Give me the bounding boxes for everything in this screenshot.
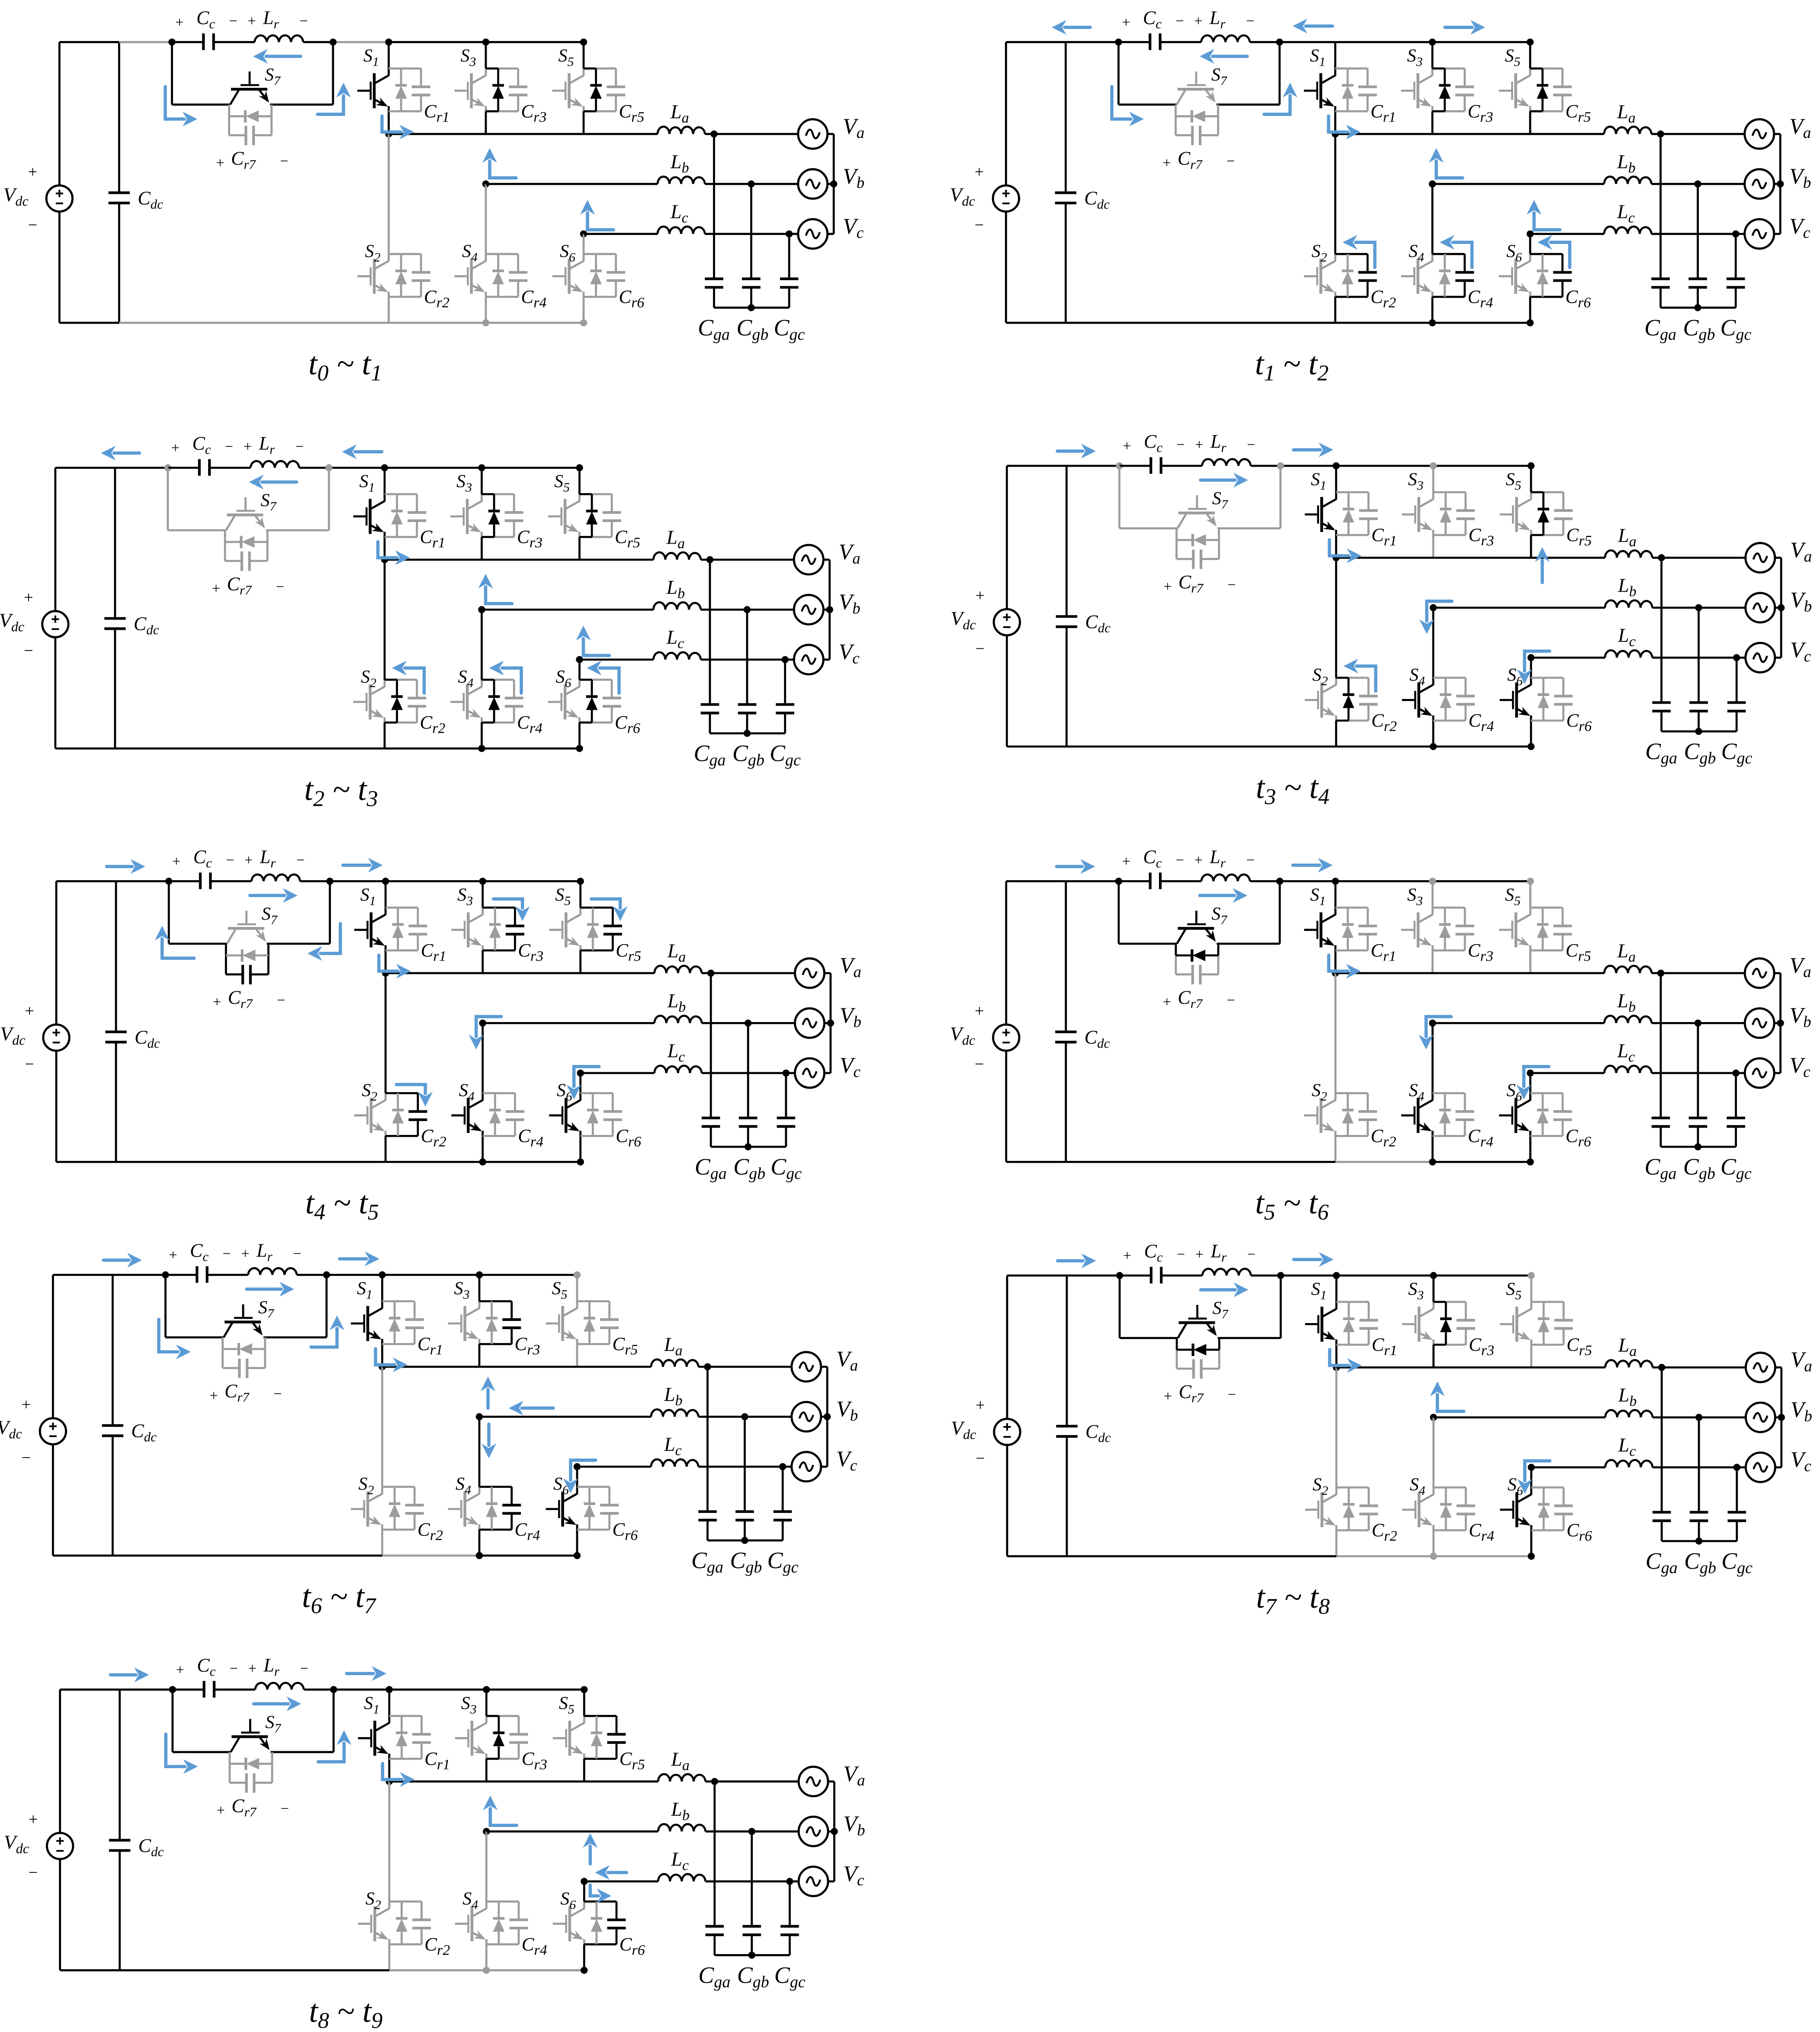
junction: bottom of leg3 (ckt 3) [576, 745, 583, 752]
label Cga (ckt 5) [695, 1154, 727, 1183]
node phase a (ckt 5) [382, 970, 389, 977]
wire: Cr7 bracket (ckt 3) [225, 530, 267, 561]
capacitor Cr6 snubber of S6 (ckt 9) [607, 1920, 626, 1928]
junction: top of leg 5 (ckt 1) [580, 38, 587, 45]
wire: Cr7 bracket (ckt 4) [1177, 529, 1219, 559]
wire: phase a line (ckt 5) [385, 972, 795, 974]
wire: top rail Cdc to node A (ckt 4) [1066, 465, 1119, 467]
svg-text:−: − [1228, 1387, 1236, 1403]
label Lb (ckt 6) [1617, 990, 1636, 1015]
capacitor Cr7 (ckt 8) [1194, 1359, 1201, 1379]
label Va (ckt 1) [843, 114, 864, 142]
label Cr5 (ckt 1) [619, 101, 645, 125]
svg-text:+: + [1163, 579, 1172, 595]
current arrow top rail before S1 (ckt 7) [340, 1252, 379, 1266]
wire: top rail leg2 to leg3 (ckt 2) [1432, 41, 1530, 43]
inductor Lc (ckt 1) [658, 227, 705, 234]
inductor La (ckt 7) [651, 1359, 698, 1367]
capacitor Cr4 snubber of S4 (ckt 9) [510, 1920, 528, 1928]
current arrow phase b up (ckt 9) [483, 1795, 517, 1825]
capacitor Cr3 snubber of S3 (ckt 8) [1457, 1320, 1475, 1328]
junction: Cgb bottom (ckt 3) [744, 730, 751, 737]
label La (ckt 9) [671, 1748, 690, 1773]
capacitor Cgb (ckt 4) [1689, 608, 1708, 731]
junction: phase a to ground cap (ckt 8) [1658, 1364, 1665, 1371]
label Cr2 (ckt 6) [1371, 1126, 1396, 1150]
label Cga (ckt 2) [1644, 314, 1676, 343]
diode D2 antiparallel of S2 (ckt 8) [1343, 1487, 1355, 1530]
voltage source Va (ckt 6) [1745, 958, 1774, 988]
current arrow phase c into S6 (ckt 6) [1516, 1067, 1549, 1099]
wire: bottom rail Cdc to leg1 (ckt 9) [120, 1969, 389, 1971]
svg-text:−: − [229, 13, 237, 29]
label Lb (ckt 3) [666, 576, 685, 602]
label Lr with polarity (ckt 2) [1194, 7, 1254, 31]
transistor S6 (ckt 4) [1500, 678, 1531, 721]
wire: snubber bracket of S5 (ckt 7) [577, 1301, 610, 1344]
wire: snubber bracket of S3 (ckt 8) [1434, 1302, 1466, 1345]
label Cdc (ckt 2) [1084, 187, 1110, 212]
node A (ckt 8) [1116, 1272, 1123, 1279]
label S1 (ckt 5) [360, 885, 376, 908]
junction: top of leg 5 (ckt 7) [574, 1271, 581, 1278]
current arrow out of S7 loop right (ckt 1) [318, 83, 351, 114]
node B (ckt 2) [1276, 38, 1283, 45]
current arrow phase c up (ckt 2) [1527, 200, 1560, 230]
label Cr1 (ckt 1) [424, 101, 449, 125]
current arrow Lr current (ckt 2) [1200, 49, 1247, 64]
voltage source Va (ckt 7) [792, 1352, 821, 1381]
label Cdc (ckt 7) [131, 1420, 157, 1445]
capacitor Cr2 snubber of S2 (ckt 8) [1359, 1506, 1378, 1514]
capacitor Cr5 snubber of S5 (ckt 3) [603, 513, 621, 521]
transistor S6 (ckt 8) [1500, 1487, 1531, 1530]
diode D7 antiparallel of S7 (ckt 9) [230, 1758, 272, 1770]
svg-text:−: − [276, 579, 284, 595]
diode D5 antiparallel of S5 (ckt 8) [1538, 1302, 1550, 1345]
junction: phase c to ground cap (ckt 8) [1733, 1464, 1740, 1471]
diode D3 antiparallel of S3 (ckt 4) [1440, 492, 1451, 535]
wire: snubber bracket of S5 (ckt 9) [584, 1716, 616, 1759]
wire: leg at S4 (ckt 9) [485, 1831, 488, 1970]
wire: snubber bracket of S2 (ckt 6) [1335, 1093, 1368, 1136]
wire: left rail (ckt 6) [1006, 881, 1066, 1162]
label Vdc with polarity (ckt 3) [0, 589, 33, 660]
diode D2 antiparallel of S2 (ckt 4) [1343, 678, 1355, 721]
junction: top of leg 1 (ckt 9) [386, 1686, 393, 1693]
capacitor Cr2 snubber of S2 (ckt 6) [1358, 1112, 1377, 1120]
label S1 (ckt 9) [364, 1693, 379, 1716]
label S1 (ckt 7) [357, 1279, 372, 1302]
label Lb (ckt 2) [1617, 151, 1636, 176]
inductor Lb (ckt 3) [654, 603, 701, 610]
wire: snubber bracket of S6 (ckt 3) [580, 680, 612, 723]
svg-text:−: − [1227, 992, 1235, 1008]
current arrow D4 up (ckt 3) [489, 661, 522, 693]
wire: phase a line (ckt 2) [1335, 133, 1745, 135]
label S6 (ckt 8) [1508, 1475, 1523, 1498]
diode D4 antiparallel of S4 (ckt 7) [486, 1487, 498, 1530]
node phase c (ckt 6) [1527, 1070, 1534, 1077]
current arrow out of S7 loop right (ckt 2) [1264, 83, 1297, 114]
inductor La (ckt 8) [1605, 1360, 1653, 1368]
diode D4 antiparallel of S4 (ckt 4) [1440, 678, 1451, 721]
wire: S7 loop right side (ckt 7) [263, 1275, 327, 1338]
label Cgb (ckt 9) [737, 1962, 769, 1991]
junction: Cgb bottom (ckt 2) [1694, 304, 1701, 311]
wire: top rail node B to leg1 (ckt 6) [1280, 880, 1335, 882]
voltage source Vb (ckt 4) [1746, 593, 1775, 622]
diode D2 antiparallel of S2 (ckt 5) [392, 1093, 404, 1136]
diode D2 antiparallel of S2 (ckt 7) [389, 1487, 401, 1530]
label S2 (ckt 2) [1312, 241, 1327, 264]
wire: snubber bracket of S2 (ckt 9) [389, 1901, 422, 1944]
wire: snubber bracket of S3 (ckt 7) [479, 1301, 512, 1344]
label Cr2 (ckt 3) [420, 713, 446, 737]
wire: top rail Cdc to node A (ckt 7) [112, 1274, 165, 1276]
inductor La (ckt 3) [654, 552, 701, 560]
junction: phase b to ground cap (ckt 5) [745, 1019, 751, 1026]
svg-text:+: + [244, 439, 252, 455]
wire: top rail leg1 to leg2 (ckt 5) [385, 880, 483, 882]
label Vc (ckt 1) [843, 214, 864, 242]
transistor S6 (ckt 2) [1499, 254, 1530, 297]
transistor S3 (ckt 1) [455, 68, 486, 111]
label Cc with polarity (ckt 6) [1122, 846, 1184, 870]
label Cr7 with polarity (ckt 8) [1164, 1381, 1236, 1405]
current arrow phase a out of S1 (ckt 9) [382, 1763, 414, 1787]
transistor S6 (ckt 3) [548, 680, 579, 723]
wire: snubber bracket of S1 (ckt 4) [1336, 492, 1369, 535]
wire: leg at S3 (ckt 2) [1432, 42, 1434, 134]
label Cr3 (ckt 3) [517, 527, 542, 551]
transistor S2 (ckt 8) [1305, 1487, 1336, 1530]
label Vc (ckt 6) [1789, 1053, 1810, 1081]
label Cr2 (ckt 5) [421, 1126, 446, 1150]
wire: bottom rail Cdc to leg1 (ckt 6) [1066, 1161, 1335, 1163]
label Cr6 (ckt 6) [1566, 1126, 1591, 1150]
svg-text:−: − [1226, 153, 1235, 169]
transistor S4 (ckt 2) [1401, 254, 1432, 297]
current arrow Lr current (ckt 9) [254, 1696, 301, 1711]
wire: top rail Cdc to node A (ckt 8) [1067, 1275, 1120, 1277]
svg-text:−: − [29, 1863, 38, 1881]
label S2 (ckt 9) [366, 1889, 381, 1912]
label La (ckt 3) [666, 526, 685, 552]
current arrow phase a out of S1 (ckt 7) [376, 1349, 408, 1372]
label S4 (ckt 4) [1409, 665, 1425, 688]
wire: top rail leg2 to leg3 (ckt 4) [1433, 465, 1531, 467]
wire: snubber bracket of S4 (ckt 4) [1433, 678, 1466, 721]
voltage source Vc (ckt 9) [799, 1867, 828, 1896]
node phase a (ckt 9) [386, 1778, 393, 1785]
svg-text:+: + [216, 155, 224, 171]
wire: top rail node B to leg1 (ckt 4) [1281, 465, 1336, 467]
junction: top of leg 1 (ckt 3) [381, 464, 388, 471]
label La (ckt 4) [1618, 524, 1637, 550]
capacitor Cc (ckt 4) [1120, 457, 1161, 474]
node phase b (ckt 6) [1429, 1019, 1436, 1026]
label Cr3 (ckt 9) [522, 1749, 547, 1772]
wire: S7 loop right side (ckt 3) [266, 468, 329, 531]
node B (ckt 9) [330, 1686, 337, 1693]
junction: top of leg 3 (ckt 2) [1429, 38, 1436, 45]
label S6 (ckt 2) [1506, 241, 1522, 264]
wire: leg at S2 (ckt 1) [388, 134, 390, 323]
label Cr5 (ckt 8) [1566, 1335, 1592, 1359]
wire: phase b line (ckt 3) [482, 609, 794, 611]
label S6 (ckt 7) [553, 1474, 569, 1497]
diode D6 antiparallel of S6 (ckt 2) [1537, 254, 1548, 297]
transistor S7 auxiliary switch (ckt 8) [1178, 1305, 1217, 1338]
wire: bottom rail Cdc to leg1 (ckt 3) [115, 747, 385, 750]
wire: snubber bracket of S6 (ckt 5) [581, 1093, 613, 1136]
current arrow top rail right S3-S5 (ckt 2) [1445, 20, 1485, 35]
wire: bottom rail Cdc to leg1 (ckt 4) [1066, 746, 1336, 748]
label Cgb (ckt 2) [1683, 314, 1715, 343]
wire: left rail (ckt 9) [60, 1689, 120, 1970]
label S4 (ckt 8) [1410, 1475, 1425, 1498]
svg-text:+: + [25, 1002, 34, 1020]
svg-text:−: − [28, 216, 37, 234]
wire: snubber bracket of S2 (ckt 3) [385, 680, 417, 723]
wire: snubber bracket of S1 (ckt 1) [389, 68, 421, 111]
voltage source Va (ckt 8) [1746, 1353, 1775, 1382]
wire: bottom rail leg2 to leg3 (ckt 4) [1433, 746, 1531, 748]
capacitor Cr7 (ckt 7) [239, 1359, 247, 1378]
label Cr2 (ckt 4) [1371, 711, 1397, 734]
capacitor Cr1 snubber of S1 (ckt 5) [408, 926, 427, 934]
wire: top rail leg1 to leg2 (ckt 4) [1336, 465, 1434, 467]
transistor S4 (ckt 4) [1402, 678, 1433, 721]
wire: leg at S5 (ckt 1) [583, 42, 585, 134]
label S7 (ckt 9) [265, 1712, 282, 1735]
junction: bottom of leg2 (ckt 2) [1429, 319, 1436, 326]
junction: phase a to ground cap (ckt 4) [1658, 554, 1665, 561]
capacitor Cga (ckt 2) [1651, 134, 1670, 308]
wire: top rail Cdc to node A (ckt 9) [120, 1689, 173, 1691]
wire: snubber bracket of S5 (ckt 5) [581, 907, 613, 950]
node A (ckt 6) [1115, 878, 1122, 885]
wire: leg at S1 (ckt 3) [384, 468, 386, 560]
inductor Lb (ckt 1) [658, 176, 705, 184]
voltage source Vb (ckt 1) [798, 169, 828, 199]
wire: phase c line (ckt 5) [581, 1072, 795, 1074]
capacitor Cr2 snubber of S2 (ckt 4) [1359, 696, 1378, 704]
capacitor Cr5 snubber of S5 (ckt 6) [1554, 926, 1572, 934]
diode D1 antiparallel of S1 (ckt 9) [396, 1716, 408, 1759]
inductor Lr (ckt 4) [1161, 459, 1281, 466]
node phase b (ckt 9) [483, 1828, 490, 1835]
diode D7 antiparallel of S7 (ckt 7) [223, 1343, 265, 1356]
current arrow phase b up (ckt 8) [1430, 1381, 1464, 1411]
label Vc (ckt 2) [1789, 214, 1810, 242]
transistor S5 (ckt 7) [546, 1301, 577, 1344]
svg-text:−: − [280, 153, 288, 169]
junction: top of leg 5 (ckt 2) [1527, 38, 1534, 45]
svg-text:−: − [225, 439, 233, 455]
voltage source Vb (ckt 5) [795, 1008, 825, 1038]
voltage source Vc (ckt 6) [1745, 1058, 1774, 1088]
current arrow Lr current (ckt 7) [247, 1282, 294, 1297]
wire: snubber bracket of S5 (ckt 6) [1530, 907, 1563, 950]
label S1 (ckt 6) [1310, 885, 1326, 908]
capacitor Cr4 snubber of S4 (ckt 3) [505, 698, 523, 706]
current arrow phase b up into Cr3 (ckt 7) [481, 1377, 495, 1408]
junction: top of leg 1 (ckt 5) [382, 878, 389, 885]
label Vc (ckt 5) [840, 1053, 861, 1081]
wire: snubber bracket of S1 (ckt 9) [389, 1716, 422, 1759]
wire: leg at S6 (ckt 2) [1529, 234, 1531, 323]
node phase b (ckt 8) [1430, 1414, 1437, 1421]
label Cr2 (ckt 1) [424, 287, 449, 311]
current arrow phase b down (ckt 5) [469, 1016, 501, 1049]
transistor S6 (ckt 5) [549, 1093, 580, 1136]
label S3 (ckt 4) [1408, 470, 1424, 493]
current arrow into Cr5 (ckt 5) [591, 899, 628, 921]
svg-text:−: − [230, 1660, 238, 1676]
node phase c (ckt 9) [581, 1878, 587, 1885]
junction: Vb right bus (ckt 7) [824, 1413, 831, 1420]
label Lc (ckt 8) [1618, 1434, 1636, 1459]
capacitor Cc (ckt 5) [169, 872, 210, 889]
capacitor Cr4 snubber of S4 (ckt 5) [506, 1112, 524, 1120]
wire: leg at S1 (ckt 8) [1335, 1276, 1338, 1368]
label Cr7 with polarity (ckt 7) [209, 1381, 282, 1405]
svg-text:+: + [247, 13, 256, 29]
transistor S5 (ckt 9) [553, 1716, 584, 1759]
wire: leg at S6 (ckt 5) [579, 1073, 581, 1162]
wire: leg at S4 (ckt 3) [481, 610, 483, 749]
label La (ckt 1) [670, 100, 689, 126]
current arrow into S7 loop left (ckt 9) [166, 1734, 198, 1774]
label S5 (ckt 2) [1505, 46, 1521, 69]
label S2 (ckt 5) [362, 1080, 377, 1103]
wire: leg at S2 (ckt 8) [1335, 1368, 1338, 1557]
voltage source Va (ckt 3) [794, 545, 823, 574]
capacitor Cr6 snubber of S6 (ckt 2) [1553, 272, 1572, 281]
label Cgb (ckt 7) [730, 1548, 762, 1577]
current arrow S7 loop left up (ckt 5) [155, 926, 194, 958]
capacitor Cr5 snubber of S5 (ckt 1) [607, 87, 625, 95]
label Cc with polarity (ckt 9) [176, 1654, 238, 1679]
capacitor Cgc (ckt 7) [774, 1467, 792, 1541]
wire: phase a line (ckt 1) [389, 133, 798, 135]
label Vc (ckt 7) [836, 1447, 857, 1474]
label Vdc with polarity (ckt 7) [0, 1396, 31, 1467]
current arrow top rail before S1 (ckt 6) [1293, 858, 1332, 872]
label interval t8 to t9 (ckt 9) [309, 1994, 382, 2032]
diode D6 antiparallel of S6 (ckt 1) [590, 254, 602, 297]
current arrow phase a out of S1 (ckt 3) [378, 542, 410, 565]
capacitor Cdc (ckt 9) [109, 1689, 130, 1970]
wire: Cr7 bracket (ckt 1) [229, 105, 272, 135]
voltage source Vdc (ckt 3) [42, 611, 68, 637]
label Cga (ckt 3) [694, 740, 726, 769]
label Cc with polarity (ckt 8) [1123, 1240, 1185, 1265]
wire: snubber bracket of S4 (ckt 6) [1432, 1093, 1465, 1136]
label S6 (ckt 3) [556, 667, 571, 690]
wire: S7 loop right side (ckt 4) [1217, 466, 1281, 529]
wire: S7 loop left side (ckt 7) [166, 1275, 224, 1338]
wire: leg at S1 (ckt 6) [1334, 881, 1336, 973]
label Cr5 (ckt 6) [1566, 940, 1591, 964]
current arrow top rail before S1 (ckt 9) [347, 1666, 386, 1681]
junction: phase a to ground cap (ckt 7) [704, 1363, 711, 1370]
capacitor Cdc (ckt 8) [1056, 1276, 1077, 1556]
current arrow top rail left before S1 (ckt 2) [1293, 19, 1332, 33]
label S2 (ckt 4) [1313, 665, 1328, 688]
label Cga (ckt 6) [1644, 1154, 1676, 1183]
diode D1 antiparallel of S1 (ckt 7) [389, 1301, 401, 1344]
wire: snubber bracket of S6 (ckt 1) [584, 254, 616, 297]
label S3 (ckt 6) [1407, 885, 1423, 908]
label Lb (ckt 9) [671, 1798, 690, 1824]
label Cc with polarity (ckt 2) [1122, 7, 1184, 31]
transistor S4 (ckt 5) [451, 1093, 482, 1136]
transistor S3 (ckt 6) [1401, 907, 1432, 950]
wire: snubber bracket of S2 (ckt 8) [1336, 1487, 1369, 1530]
diode D4 antiparallel of S4 (ckt 5) [489, 1093, 501, 1136]
wire: leg at S5 (ckt 3) [578, 468, 581, 560]
inductor Lr (ckt 2) [1160, 35, 1280, 42]
wire: bottom rail leg2 to leg3 (ckt 1) [486, 322, 584, 324]
wire: bottom rail leg2 to leg3 (ckt 5) [483, 1161, 581, 1163]
node A (ckt 2) [1115, 38, 1122, 45]
wire: ground cap bus (ckt 4) [1662, 731, 1737, 733]
junction: phase b to ground cap (ckt 7) [741, 1413, 748, 1420]
junction: phase a to ground cap (ckt 6) [1657, 970, 1664, 977]
current arrow S7 loop right down (ckt 5) [308, 923, 340, 961]
capacitor Cgc (ckt 5) [777, 1073, 796, 1147]
wire: leg at S3 (ckt 3) [481, 468, 483, 560]
capacitor Cr5 snubber of S5 (ckt 7) [600, 1320, 619, 1328]
wire: top rail leg2 to leg3 (ckt 5) [483, 880, 581, 882]
wire: bottom rail leg1 to leg2 (ckt 9) [389, 1969, 487, 1971]
current arrow phase b down (ckt 4) [1419, 601, 1452, 634]
wire: snubber bracket of S2 (ckt 5) [385, 1093, 418, 1136]
junction: top of leg 1 (ckt 1) [385, 38, 392, 45]
wire: left rail (ckt 7) [53, 1275, 112, 1556]
current arrow Lr current (ckt 8) [1201, 1282, 1249, 1297]
label interval t0 to t1 (ckt 1) [308, 346, 382, 385]
label Lr with polarity (ckt 6) [1194, 846, 1255, 870]
label Lr with polarity (ckt 9) [248, 1654, 308, 1679]
label Cr5 (ckt 9) [620, 1749, 645, 1772]
junction: bottom of leg3 (ckt 4) [1528, 743, 1534, 750]
wire: leg at S1 (ckt 9) [388, 1689, 390, 1781]
transistor S1 (ckt 2) [1304, 68, 1335, 111]
diode D5 antiparallel of S5 (ckt 2) [1537, 68, 1548, 111]
wire: leg at S1 (ckt 1) [388, 42, 390, 134]
label Cr5 (ckt 5) [616, 940, 641, 964]
label S6 (ckt 9) [560, 1889, 576, 1912]
label S3 (ckt 1) [461, 46, 476, 69]
wire: bottom rail leg1 to leg2 (ckt 8) [1336, 1555, 1434, 1558]
transistor S5 (ckt 4) [1500, 492, 1531, 535]
svg-text:−: − [277, 992, 285, 1008]
wire: leg at S5 (ckt 9) [583, 1689, 585, 1781]
wire: bottom rail leg1 to leg2 (ckt 7) [382, 1554, 480, 1557]
junction: phase b to ground cap (ckt 8) [1695, 1414, 1702, 1421]
current arrow phase a out of S1 (ckt 2) [1329, 116, 1361, 139]
svg-text:−: − [1177, 1247, 1185, 1263]
capacitor Cr1 snubber of S1 (ckt 4) [1359, 510, 1378, 519]
inductor Lc (ckt 4) [1605, 651, 1652, 658]
svg-text:−: − [273, 1386, 282, 1402]
label Cr1 (ckt 5) [421, 940, 446, 964]
junction: bottom of leg2 (ckt 4) [1430, 743, 1437, 750]
